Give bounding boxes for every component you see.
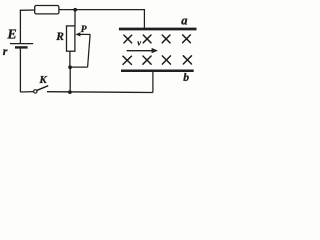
field cross row1 #4: [183, 35, 191, 43]
svg-text:r: r: [3, 44, 8, 58]
switch K lever: [37, 86, 48, 91]
wiper arrowhead (points left at rheostat): [75, 32, 80, 36]
wire lower junction down to bottom wire: [69, 67, 71, 92]
wire bottom horizontal (switch to right connector): [47, 91, 153, 94]
field cross row2 #3: [162, 56, 170, 64]
velocity arrow shaft: [127, 50, 153, 52]
battery E short thick plate: [15, 46, 28, 48]
junction dot (rheostat bottom / wiper node): [68, 65, 72, 69]
field cross row1 #1: [124, 35, 132, 43]
wire left vertical (lower): [19, 49, 21, 93]
field cross row2 #4: [183, 56, 191, 64]
wire rheostat bottom to lower junction: [69, 51, 71, 67]
rail a (top conductor): [119, 28, 197, 31]
field cross row1 #3: [162, 35, 170, 43]
svg-text:a: a: [181, 14, 187, 28]
junction dot (bottom wire node): [68, 90, 72, 94]
rheostat R body: [67, 26, 75, 51]
svg-text:b: b: [183, 72, 189, 84]
wire bottom-right vertical connector to rail b: [152, 71, 154, 92]
svg-text:K: K: [38, 74, 47, 86]
rail b (bottom conductor): [121, 70, 194, 73]
field cross row2 #2: [143, 56, 151, 64]
svg-text:E: E: [6, 27, 16, 42]
resistor (fixed, top): [35, 6, 59, 14]
wire top-right vertical connector to rail a: [143, 10, 145, 28]
wire top horizontal (resistor to top-right corner): [59, 9, 145, 11]
wire lower-junction horizontal connector: [70, 66, 88, 68]
svg-text:P: P: [81, 25, 87, 35]
svg-text:R: R: [55, 31, 64, 43]
wire bottom-left horizontal: [20, 91, 33, 93]
field cross row1 #2: [143, 35, 151, 43]
velocity arrowhead: [152, 48, 158, 53]
switch K contact circle: [34, 90, 37, 93]
wire junction to rheostat top: [74, 10, 76, 26]
wire left vertical (upper): [19, 10, 21, 44]
wiper tail vertical wire: [88, 34, 91, 67]
wire top-left horizontal: [20, 9, 35, 11]
battery E long plate: [10, 43, 33, 45]
svg-text:v: v: [137, 38, 141, 48]
field cross row2 #1: [123, 56, 131, 64]
junction dot (top, resistor/rheostat node): [73, 8, 77, 12]
wiper arrow shaft: [80, 33, 91, 35]
